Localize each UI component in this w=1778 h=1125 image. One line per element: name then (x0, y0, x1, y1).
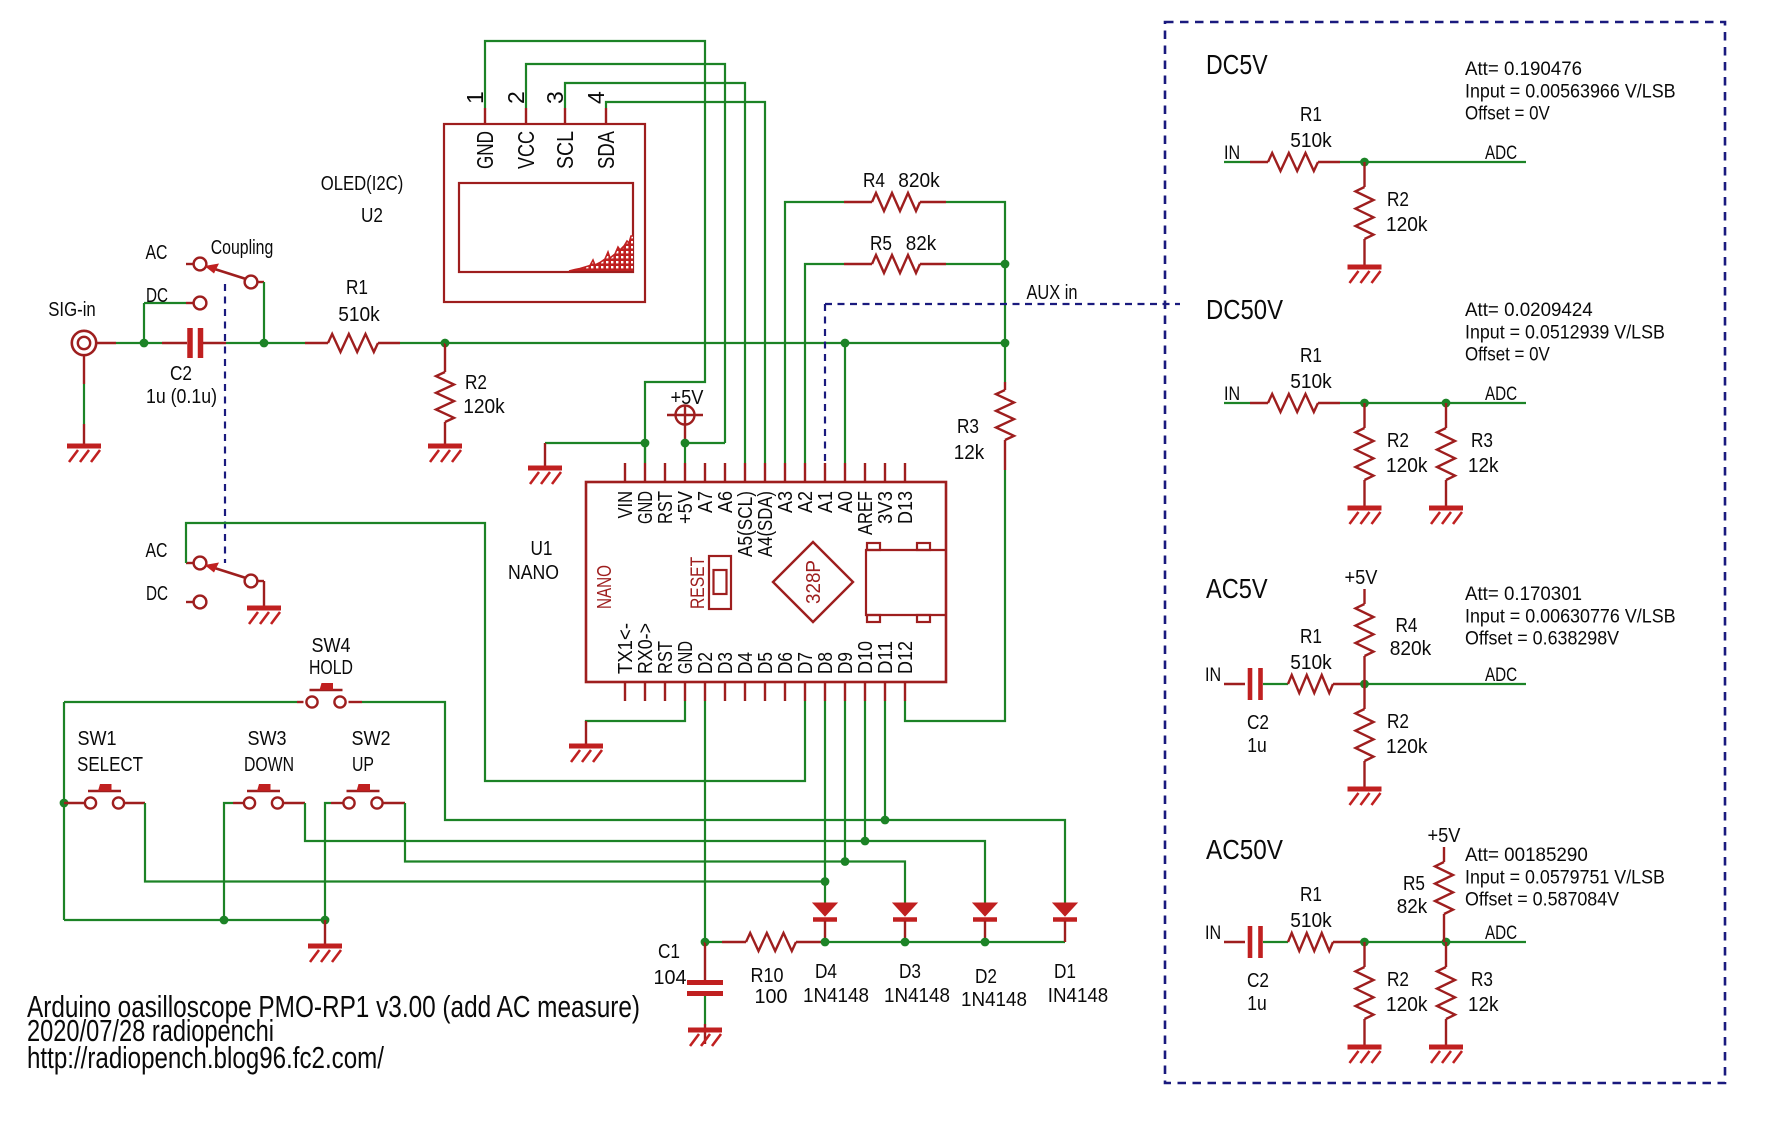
svg-text:C2: C2 (1247, 970, 1269, 992)
svg-text:12k: 12k (1468, 994, 1499, 1016)
U1 top pin A6 (724, 463, 726, 482)
svg-text:D3: D3 (899, 961, 921, 983)
ground buttons rail (308, 946, 342, 962)
svg-text:AC5V: AC5V (1206, 573, 1268, 604)
resistor R5 (844, 255, 946, 273)
U1 top pin VIN (624, 463, 626, 482)
resistor R5 AC50V (1435, 847, 1453, 942)
svg-text:IN: IN (1224, 383, 1240, 405)
svg-text:HOLD: HOLD (309, 657, 353, 679)
capacitor C2 (144, 328, 226, 358)
svg-text:A6: A6 (715, 491, 737, 513)
wire SW1 right to D8 line (125, 802, 145, 804)
node rail-SW2 (321, 916, 330, 925)
U1 top pin D13 (904, 463, 906, 482)
svg-text:R1: R1 (1300, 884, 1322, 906)
wire D4 cathode (824, 921, 826, 942)
ground R2 AC5V (1348, 789, 1382, 805)
wire S1b AC to D7 (186, 523, 805, 781)
U1 bottom pin D9 (844, 682, 846, 701)
aux input dashed wire (825, 303, 1180, 305)
power +5V (667, 405, 703, 443)
svg-text:820k: 820k (1390, 638, 1432, 660)
svg-text:DC: DC (146, 285, 168, 307)
svg-text:ADC: ADC (1485, 922, 1517, 944)
svg-text:NANO: NANO (594, 565, 616, 609)
resistor R2 DC50V (1356, 403, 1374, 506)
resistor R1 AC5V (1288, 675, 1365, 693)
wire bottom rail (64, 919, 325, 921)
svg-text:RST: RST (655, 641, 677, 674)
switch SW3 DOWN (244, 784, 283, 809)
switch S1b contact DC (186, 601, 194, 603)
wire SIG-in to node (116, 342, 144, 344)
node GND pin (641, 439, 650, 448)
svg-text:120k: 120k (1386, 736, 1428, 758)
U1 bottom pin D4 (744, 682, 746, 701)
svg-text:Offset = 0.587084V: Offset = 0.587084V (1465, 889, 1619, 911)
svg-text:Offset = 0V: Offset = 0V (1465, 103, 1550, 125)
svg-text:A0: A0 (835, 491, 857, 513)
svg-text:D4: D4 (735, 652, 757, 674)
svg-text:D2: D2 (695, 652, 717, 674)
node main-A0 (841, 339, 850, 348)
svg-text:DOWN: DOWN (244, 754, 294, 776)
svg-text:SIG-in: SIG-in (48, 299, 96, 321)
capacitor C2 AC50V (1224, 926, 1288, 958)
node rail-SW3 (220, 916, 229, 925)
svg-text:SW3: SW3 (248, 728, 287, 750)
wire coupling common (258, 281, 265, 283)
node main-R2 (441, 339, 450, 348)
svg-text:1u: 1u (1247, 993, 1267, 1015)
wire IN DC5V (1224, 161, 1250, 163)
U1 top pin A1 (824, 463, 826, 482)
U1 top pin A5(SCL) (744, 463, 746, 482)
node R3 AC50V (1442, 938, 1451, 947)
wire SW3 right to D10 line (284, 802, 305, 804)
svg-text:Input = 0.0579751 V/LSB: Input = 0.0579751 V/LSB (1465, 866, 1665, 888)
svg-text:SW1: SW1 (78, 728, 117, 750)
svg-text:R1: R1 (1300, 345, 1322, 367)
svg-text:Att= 0.0209424: Att= 0.0209424 (1465, 299, 1593, 321)
ground R3 DC50V (1429, 508, 1463, 524)
svg-text:120k: 120k (1386, 994, 1428, 1016)
svg-text:AC: AC (146, 540, 168, 562)
wire SW1 left (64, 802, 84, 804)
wire ADC DC5V (1365, 161, 1527, 163)
node SW1-D8 (821, 877, 830, 886)
resistor R4 (844, 193, 946, 211)
wire DC branch (143, 303, 145, 343)
svg-text:http://radiopench.blog96.fc2.c: http://radiopench.blog96.fc2.com/ (27, 1041, 384, 1075)
U1 bottom pin D7 (804, 682, 806, 701)
svg-text:820k: 820k (898, 170, 940, 192)
svg-text:A7: A7 (695, 491, 717, 513)
wire SW4 left rail (297, 701, 304, 703)
wire ADC AC50V (1365, 941, 1527, 943)
svg-text:1u (0.1u): 1u (0.1u) (146, 386, 217, 408)
wire GND node to ground (545, 442, 645, 444)
svg-text:3V3: 3V3 (875, 491, 897, 524)
svg-text:+5V: +5V (675, 490, 697, 524)
node +5V pin (681, 439, 690, 448)
svg-text:D7: D7 (795, 652, 817, 674)
svg-text:OLED(I2C): OLED(I2C) (321, 173, 404, 195)
wire IN DC50V (1224, 402, 1250, 404)
svg-text:RST: RST (655, 491, 677, 524)
U1 bottom pin D6 (784, 682, 786, 701)
wire R1 to node (400, 342, 445, 344)
wire main line R2 to A0 node (445, 342, 845, 344)
switch S1a contact DC (194, 297, 207, 310)
U1 bottom pin D2 (704, 682, 706, 701)
svg-text:R2: R2 (1387, 189, 1409, 211)
U1 top pin A7 (704, 463, 706, 482)
svg-text:104: 104 (654, 967, 687, 989)
svg-text:Coupling: Coupling (211, 237, 274, 259)
diode D3 (893, 903, 917, 920)
node rail-SW1 (60, 799, 69, 808)
resistor R2 AC50V (1356, 942, 1374, 1045)
svg-text:VCC: VCC (513, 131, 539, 169)
wire to D2 (865, 841, 985, 903)
svg-text:Input = 0.00630776 V/LSB: Input = 0.00630776 V/LSB (1465, 605, 1676, 627)
resistor R1 DC50V (1268, 394, 1365, 412)
wire main line A0 to R3 node (845, 342, 1005, 344)
USB connector U1 (866, 543, 946, 622)
IC U1 Arduino NANO body (586, 482, 946, 682)
U1 top pin A2 (804, 463, 806, 482)
ground SIG-in (67, 446, 101, 462)
svg-text:1u: 1u (1247, 735, 1267, 757)
wire D1 cathode (1064, 921, 1066, 942)
svg-text:D6: D6 (775, 652, 797, 674)
U1 bottom pin D3 (724, 682, 726, 701)
node DC50V (1360, 399, 1369, 408)
wire S1b common to ground (258, 580, 265, 582)
svg-text:Att= 00185290: Att= 00185290 (1465, 844, 1588, 866)
OLED pin 3 SCL (564, 108, 566, 124)
U1 top pin RST (664, 463, 666, 482)
svg-text:SDA: SDA (593, 130, 619, 169)
svg-text:D9: D9 (835, 652, 857, 674)
resistor R2 DC5V (1356, 162, 1374, 265)
wire A3 to R4 (785, 202, 844, 463)
svg-text:GND: GND (635, 491, 657, 524)
svg-text:C2: C2 (170, 363, 192, 385)
node DC5V (1360, 158, 1369, 167)
wire ADC AC5V (1365, 683, 1527, 685)
svg-text:120k: 120k (463, 396, 505, 418)
U1 bottom pin D11 (884, 682, 886, 701)
wire SW3 left to rail (233, 802, 243, 804)
svg-text:D11: D11 (875, 641, 897, 674)
capacitor C2 AC5V (1224, 668, 1288, 700)
svg-text:C2: C2 (1247, 712, 1269, 734)
svg-text:R3: R3 (1471, 430, 1493, 452)
svg-text:C1: C1 (658, 941, 680, 963)
node SW3-D10 (861, 837, 870, 846)
wire SW2 right to D9 line (384, 802, 406, 804)
node main-DC branch (140, 339, 149, 348)
svg-text:328P: 328P (803, 560, 825, 604)
U1 bottom pin RX0-> (644, 682, 646, 701)
switch SW1 SELECT (85, 784, 124, 809)
svg-text:ADC: ADC (1485, 664, 1517, 686)
svg-text:SW4: SW4 (312, 635, 351, 657)
svg-text:D5: D5 (755, 652, 777, 674)
svg-text:12k: 12k (954, 442, 985, 464)
U1 top pin 3V3 (884, 463, 886, 482)
svg-text:R1: R1 (346, 277, 368, 299)
wire SW4 right to D11 line (349, 701, 363, 703)
svg-text:TX1<-: TX1<- (615, 623, 637, 674)
capacitor C1 (687, 942, 723, 1044)
svg-text:SCL: SCL (552, 131, 578, 169)
wire OLED GND to NANO GND (485, 41, 705, 463)
svg-text:+5V: +5V (671, 387, 705, 409)
U1 bottom pin D5 (764, 682, 766, 701)
OLED pin 2 VCC (525, 108, 527, 124)
wire D10 to D2 (864, 701, 866, 841)
U1 bottom pin GND (684, 682, 686, 701)
U1 bottom pin TX1<- (624, 682, 626, 701)
svg-text:R2: R2 (1387, 969, 1409, 991)
svg-text:R5: R5 (870, 233, 892, 255)
panel dashed border (1165, 22, 1725, 1083)
U1 bottom pin D8 (824, 682, 826, 701)
wire +5V node to VCC riser (685, 442, 725, 444)
wire OLED VCC to +5V (526, 64, 725, 443)
wire SW2 left to rail (331, 802, 343, 804)
svg-text:A4(SDA): A4(SDA) (755, 491, 777, 557)
svg-text:R2: R2 (465, 372, 487, 394)
diode D1 (1053, 903, 1077, 920)
resistor R1 DC5V (1268, 153, 1365, 171)
svg-text:510k: 510k (1290, 652, 1332, 674)
svg-text:A3: A3 (775, 491, 797, 513)
wire A0 to main (844, 343, 846, 463)
node R4/R5 (1001, 260, 1010, 269)
wire riser to main (1004, 264, 1006, 343)
resistor R3 DC50V (1437, 403, 1455, 506)
ground R3 AC50V (1429, 1047, 1463, 1063)
svg-text:AC: AC (146, 242, 168, 264)
U1 bottom pin D12 (904, 682, 906, 701)
svg-text:AREF: AREF (855, 491, 877, 535)
resistor R2 AC5V (1356, 684, 1374, 787)
svg-text:R1: R1 (1300, 104, 1322, 126)
svg-text:R5: R5 (1403, 873, 1425, 895)
wire +5V to pin (684, 443, 686, 463)
svg-text:D10: D10 (855, 641, 877, 674)
wire R3 to D12 (905, 470, 1005, 721)
connector SIG-in (72, 331, 96, 355)
node rail-D4 (821, 938, 830, 947)
svg-text:R4: R4 (1396, 615, 1418, 637)
svg-text:RESET: RESET (688, 556, 709, 609)
node main-coupling common (260, 339, 269, 348)
wire diode rail (825, 941, 1065, 943)
svg-text:D4: D4 (815, 961, 837, 983)
svg-text:DC5V: DC5V (1206, 49, 1268, 80)
wire R4 to right riser (946, 202, 1005, 264)
ground NANO GND (top) (528, 468, 562, 484)
ground C1 (688, 1030, 722, 1046)
svg-text:VIN: VIN (615, 491, 637, 519)
wire C2 to R1 (226, 342, 305, 344)
resistor R4 AC5V (1356, 589, 1374, 684)
node C1-R10 (701, 938, 710, 947)
svg-text:UP: UP (352, 754, 374, 776)
wire GND node to pin (644, 443, 646, 463)
svg-text:IN: IN (1224, 142, 1240, 164)
svg-text:DC: DC (146, 583, 168, 605)
OLED display U2 (444, 124, 645, 302)
resistor R1 AC50V (1288, 933, 1365, 951)
OLED pin 4 SDA (605, 108, 607, 124)
ground R2 (428, 446, 462, 462)
svg-text:R4: R4 (863, 170, 885, 192)
svg-text:R1: R1 (1300, 626, 1322, 648)
ground R2 AC50V (1348, 1047, 1382, 1063)
ground S1b (247, 608, 281, 624)
wire D11 to D1 (884, 701, 886, 820)
svg-text:D8: D8 (815, 652, 837, 674)
U1 bottom pin D10 (864, 682, 866, 701)
resistor R3 (996, 343, 1014, 470)
svg-text:R3: R3 (1471, 969, 1493, 991)
svg-text:D3: D3 (715, 652, 737, 674)
svg-text:U1: U1 (531, 538, 553, 560)
svg-text:A2: A2 (795, 491, 817, 513)
wire D2 cathode (984, 921, 986, 942)
svg-text:1N4148: 1N4148 (884, 985, 950, 1007)
resistor R3 AC50V (1437, 942, 1455, 1045)
U1 top pin AREF (864, 463, 866, 482)
resistor R10 (705, 933, 825, 951)
svg-text:1N4148: 1N4148 (803, 985, 869, 1007)
U1 top pin +5V (684, 463, 686, 482)
svg-text:Offset = 0V: Offset = 0V (1465, 344, 1550, 366)
svg-text:D12: D12 (895, 641, 917, 674)
svg-text:GND: GND (472, 131, 498, 169)
svg-text:12k: 12k (1468, 455, 1499, 477)
svg-text:GND: GND (675, 641, 697, 674)
OLED pin 1 GND (484, 108, 486, 124)
node rail-D3 (901, 938, 910, 947)
node AC5V (1360, 680, 1369, 689)
svg-text:Input = 0.0512939 V/LSB: Input = 0.0512939 V/LSB (1465, 321, 1665, 343)
wire SIG-in ground lead (83, 355, 85, 384)
wire rail ground stub (324, 920, 326, 944)
wire D8 to D4 (824, 701, 826, 903)
svg-text:510k: 510k (1290, 910, 1332, 932)
svg-text:D13: D13 (895, 491, 917, 524)
svg-text:A5(SCL): A5(SCL) (735, 491, 757, 557)
node AC50V (1360, 938, 1369, 947)
svg-text:100: 100 (755, 986, 788, 1008)
linkage dashed (coupling gang) (224, 284, 226, 563)
wire OLED SDA to A4 (606, 102, 765, 463)
svg-text:120k: 120k (1386, 214, 1428, 236)
svg-text:IN: IN (1205, 664, 1221, 686)
svg-text:NANO: NANO (508, 562, 559, 584)
ground R2 DC5V (1348, 267, 1382, 283)
svg-text:Offset = 0.638298V: Offset = 0.638298V (1465, 628, 1619, 650)
svg-text:1N4148: 1N4148 (961, 989, 1027, 1011)
switch S1a contact AC (186, 263, 194, 265)
resistor R2 (436, 343, 454, 444)
svg-text:82k: 82k (1397, 896, 1428, 918)
ground NANO GND (bottom) (569, 746, 603, 762)
node SW2-D9 (841, 857, 850, 866)
svg-text:R2: R2 (1387, 711, 1409, 733)
node R3 DC50V (1442, 399, 1451, 408)
svg-text:SW2: SW2 (352, 728, 391, 750)
wire D2 to C1 node (704, 701, 706, 942)
wire left rail (63, 702, 65, 920)
svg-text:R10: R10 (751, 965, 784, 987)
svg-text:+5V: +5V (1428, 825, 1462, 847)
svg-text:120k: 120k (1386, 455, 1428, 477)
U1 top pin A3 (784, 463, 786, 482)
svg-text:ADC: ADC (1485, 142, 1517, 164)
ground R2 DC50V (1348, 508, 1382, 524)
wire GND (bottom) to ground (586, 701, 685, 722)
diode D2 (973, 903, 997, 920)
svg-text:R3: R3 (957, 416, 979, 438)
svg-text:ADC: ADC (1485, 383, 1517, 405)
switch S1b contact AC (186, 562, 194, 564)
U1 top pin A0 (844, 463, 846, 482)
wire SIG-in lead (97, 342, 117, 344)
wire R5 to right riser (946, 263, 1005, 265)
svg-text:D1: D1 (1054, 961, 1076, 983)
svg-text:U2: U2 (361, 205, 383, 227)
svg-text:510k: 510k (338, 304, 380, 326)
svg-text:82k: 82k (906, 233, 937, 255)
wire D9 to D3 (844, 701, 846, 862)
328P diamond (773, 542, 853, 622)
reset button U1 (709, 556, 731, 609)
svg-text:A1: A1 (815, 491, 837, 513)
svg-text:R2: R2 (1387, 430, 1409, 452)
svg-text:RX0->: RX0-> (635, 623, 657, 674)
svg-text:Att= 0.170301: Att= 0.170301 (1465, 583, 1582, 605)
svg-text:SELECT: SELECT (77, 754, 143, 776)
node main right end (1001, 339, 1010, 348)
switch SW2 UP (343, 784, 382, 809)
wire to D1 (885, 820, 1065, 903)
wire D3 cathode (904, 921, 906, 942)
svg-text:Input = 0.00563966 V/LSB: Input = 0.00563966 V/LSB (1465, 80, 1676, 102)
svg-text:AC50V: AC50V (1206, 834, 1283, 865)
switch S1b arm (213, 568, 246, 579)
node rail-D2 (981, 938, 990, 947)
wire A2 to R5 (805, 264, 844, 463)
svg-text:D2: D2 (975, 966, 997, 988)
U1 top pin GND (644, 463, 646, 482)
wire ADC DC50V (1365, 402, 1527, 404)
svg-text:IN: IN (1205, 922, 1221, 944)
resistor R1 (305, 334, 400, 352)
svg-text:510k: 510k (1290, 371, 1332, 393)
U1 top pin A4(SDA) (764, 463, 766, 482)
wire OLED SCL to A5 (565, 83, 745, 463)
svg-text:+5V: +5V (1345, 567, 1379, 589)
